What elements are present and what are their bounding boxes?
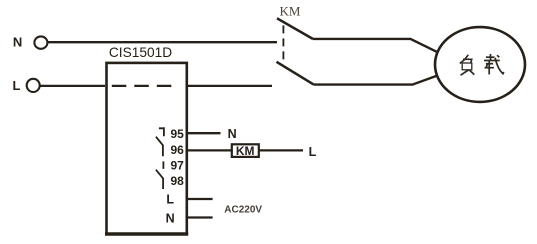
wire: pin 96 to KM coil xyxy=(188,149,232,151)
terminal L xyxy=(27,79,40,92)
svg-text:AC220V: AC220V xyxy=(224,205,262,216)
mechanical link (dashed) xyxy=(282,25,284,61)
svg-text:L: L xyxy=(13,78,21,93)
dashed L line inside relay xyxy=(112,85,173,87)
relay box CIS1501D xyxy=(107,63,187,234)
svg-text:CIS1501D: CIS1501D xyxy=(109,45,172,60)
svg-text:KM: KM xyxy=(280,3,301,18)
svg-text:L: L xyxy=(166,192,174,206)
terminal N xyxy=(34,36,47,48)
KM contact blade (L pole) xyxy=(277,62,314,85)
load label 载 (hand-drawn glyph) xyxy=(484,54,504,75)
svg-text:97: 97 xyxy=(170,159,184,173)
relay box bottom edge (thicker) xyxy=(105,232,188,235)
KM contact blade (N pole) xyxy=(277,18,313,39)
svg-text:N: N xyxy=(228,127,237,141)
load label 负 (hand-drawn glyph) xyxy=(460,55,475,75)
relay contact 97-98 xyxy=(156,161,164,189)
wire: L contact to load xyxy=(314,76,437,85)
wire: relay L output to KM contact xyxy=(187,85,272,87)
svg-text:L: L xyxy=(309,145,317,159)
svg-text:95: 95 xyxy=(170,127,184,141)
svg-text:N: N xyxy=(13,34,22,49)
contactor coil KM xyxy=(232,144,259,157)
svg-text:96: 96 xyxy=(170,143,184,157)
load circle xyxy=(435,27,525,102)
terminal stub 95 xyxy=(188,132,221,134)
wire: N line to KM contact xyxy=(47,41,277,43)
svg-text:KM: KM xyxy=(236,144,255,158)
wire: N contact to load xyxy=(313,39,438,52)
relay contact 95-96 xyxy=(156,127,164,156)
wire: L terminal to relay box xyxy=(40,85,105,87)
terminal stub L (power) xyxy=(188,198,213,200)
svg-text:98: 98 xyxy=(170,174,184,188)
svg-text:N: N xyxy=(166,211,175,225)
wire: KM coil to L xyxy=(259,149,303,151)
terminal stub N (power) xyxy=(188,216,213,218)
